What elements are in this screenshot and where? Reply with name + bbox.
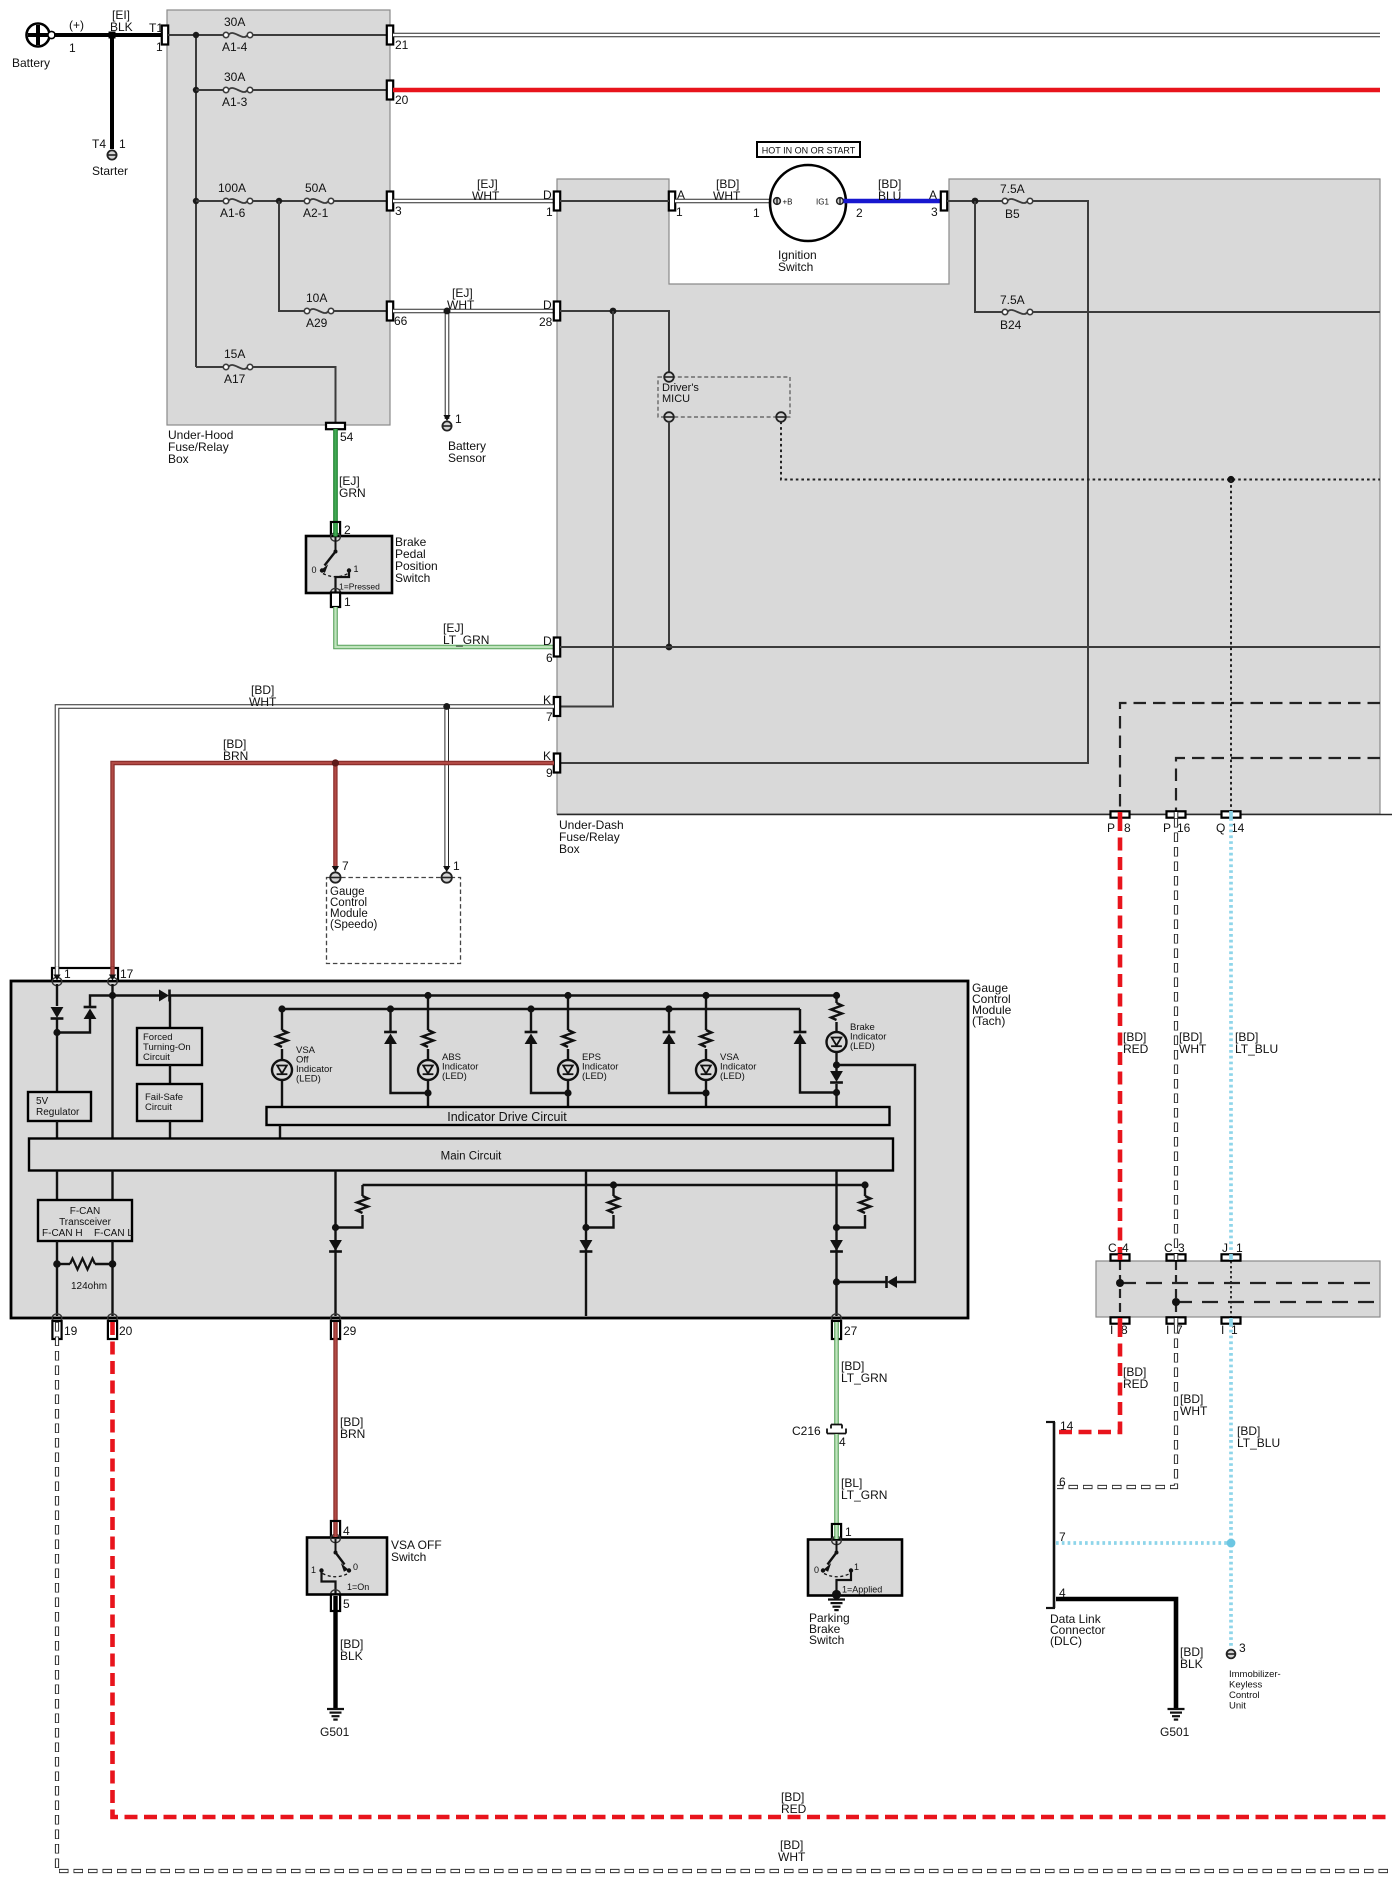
- node pin17 rail1: [109, 992, 116, 999]
- wire node to 5V regulator: [56, 1033, 58, 1093]
- svg-text:G501: G501: [320, 1725, 350, 1739]
- wire MICU to D6 line: [668, 422, 670, 648]
- node ABS join: [424, 1089, 431, 1096]
- diode brake parallel: [799, 1009, 801, 1031]
- wire dotted down to Q14: [1230, 480, 1232, 812]
- diode pin29: [329, 1240, 342, 1251]
- svg-text:D: D: [543, 634, 552, 648]
- connector I7: [1166, 1317, 1186, 1337]
- brake pedal position switch pin 2: [331, 522, 351, 537]
- svg-text:(LED): (LED): [296, 1074, 321, 1085]
- wire WHT K7 net to gauge modules: [57, 707, 554, 976]
- svg-text:B24: B24: [1000, 318, 1022, 332]
- wire F-CAN L to pin 20: [111, 1241, 113, 1316]
- svg-text:30A: 30A: [224, 70, 245, 84]
- node rail2 VSA diode: [665, 1005, 672, 1012]
- diode EPS parallel: [530, 1009, 532, 1031]
- wire WHT into tach pin 1: [55, 967, 60, 975]
- svg-text:J: J: [1222, 1241, 1228, 1255]
- svg-text:8: 8: [1124, 821, 1131, 835]
- resistor pin27 branch: [864, 1185, 866, 1196]
- ground (parking brake): [828, 1598, 845, 1600]
- brake indicator column: [835, 996, 837, 1004]
- node rail1 brake: [833, 992, 840, 999]
- svg-text:F-CAN H: F-CAN H: [42, 1228, 83, 1239]
- svg-text:16: 16: [1177, 821, 1191, 835]
- wire WHT down to speedo pin 1: [444, 707, 449, 870]
- fuse 7.5A B24: [1000, 293, 1033, 332]
- wire WHT from 21 to right edge: [393, 33, 1380, 38]
- tach pin 29 bar: [331, 1321, 357, 1339]
- wire WHT down to battery sensor: [445, 311, 450, 419]
- wire RED dashed I8 to DLC 14: [1057, 1324, 1120, 1432]
- svg-text:LT_BLU: LT_BLU: [1237, 1436, 1280, 1450]
- svg-text:Switch: Switch: [391, 1550, 426, 1564]
- resistor pin29 branch: [361, 1185, 363, 1196]
- svg-text:3: 3: [1178, 1241, 1185, 1255]
- connector C14: [1108, 1241, 1130, 1261]
- svg-text:(Speedo): (Speedo): [330, 919, 377, 931]
- wire dashed to P8: [1120, 703, 1380, 811]
- node rail2 ABS diode: [387, 1005, 394, 1012]
- svg-text:WHT: WHT: [778, 1850, 806, 1864]
- main circuit: [29, 1139, 893, 1171]
- wire A3 junction down to B24: [975, 201, 1002, 312]
- fail-safe circuit: [137, 1084, 202, 1121]
- svg-text:D: D: [543, 188, 552, 202]
- svg-text:A2-1: A2-1: [303, 206, 329, 220]
- svg-text:Box: Box: [168, 452, 189, 466]
- Driver's MICU: [658, 372, 790, 422]
- pin 17 entry: [108, 977, 118, 985]
- forced turning-on circuit: [137, 1028, 202, 1065]
- svg-text:17: 17: [120, 967, 134, 981]
- svg-text:BRN: BRN: [223, 749, 248, 763]
- tach top connector 1/17: [52, 967, 134, 981]
- svg-text:0: 0: [312, 565, 317, 575]
- svg-text:4: 4: [1122, 1241, 1129, 1255]
- wire LT_GRN pin27 to C216: [834, 1322, 839, 1424]
- svg-text:3: 3: [1239, 1641, 1246, 1655]
- wire A3 to fuse B5: [947, 200, 1002, 202]
- svg-text:9: 9: [546, 766, 553, 780]
- wire RED from 20 to right edge: [393, 88, 1380, 93]
- connector K9: [543, 749, 560, 780]
- svg-text:I: I: [1166, 1323, 1169, 1337]
- svg-text:A29: A29: [306, 316, 328, 330]
- node WHT speedo branch (overlay): [443, 703, 450, 710]
- connector block (C/J to I): [1096, 1261, 1380, 1317]
- node C14: [1116, 1279, 1124, 1287]
- svg-text:2: 2: [856, 206, 863, 220]
- Under-Hood Fuse/Relay Box: [167, 10, 390, 466]
- svg-text:1: 1: [753, 206, 760, 220]
- svg-text:7: 7: [1059, 1530, 1066, 1544]
- wire BLK DLC 4 to ground: [1056, 1599, 1176, 1708]
- resistor mid branch: [612, 1185, 614, 1196]
- wire fail-safe to main circuit: [169, 1121, 171, 1138]
- node rail2 EPS diode: [527, 1005, 534, 1012]
- wire pin27 column: [835, 1171, 837, 1317]
- indicator drive circuit: [267, 1107, 890, 1125]
- VSA OFF switch pin 5: [331, 1595, 350, 1612]
- LED VSA indicator: [696, 1060, 716, 1080]
- brake pedal position switch: [306, 533, 438, 597]
- wire BRN K9 net: [113, 763, 555, 975]
- wire pin29 column: [334, 1171, 336, 1317]
- brake pedal position switch pin 1: [331, 593, 351, 610]
- svg-text:(DLC): (DLC): [1050, 1634, 1082, 1648]
- wire WHT A1 to +B: [675, 199, 773, 204]
- svg-text:30A: 30A: [224, 15, 245, 29]
- svg-text:C: C: [1164, 1241, 1173, 1255]
- svg-text:(LED): (LED): [582, 1071, 607, 1082]
- svg-text:A1-6: A1-6: [220, 206, 246, 220]
- VSA OFF switch pin 4: [331, 1521, 350, 1538]
- svg-text:20: 20: [119, 1324, 133, 1338]
- battery sensor: [442, 412, 486, 465]
- node D28 junction: [610, 308, 617, 315]
- connector 66: [387, 302, 408, 329]
- svg-text:1: 1: [546, 205, 553, 219]
- svg-text:21: 21: [395, 38, 409, 52]
- wire D1 to A1: [560, 200, 669, 202]
- node battery sensor branch: [444, 308, 451, 315]
- svg-text:50A: 50A: [305, 181, 326, 195]
- wire BRN pin29 to VSA OFF switch: [333, 1322, 337, 1522]
- starter: [92, 137, 128, 178]
- svg-text:27: 27: [844, 1324, 858, 1338]
- ABS indicator column: [427, 996, 429, 1031]
- resistor VSA off: [277, 1030, 288, 1047]
- node pin27 lower: [833, 1278, 840, 1285]
- connector D6: [543, 634, 560, 665]
- svg-text:MICU: MICU: [662, 393, 690, 405]
- svg-text:RED: RED: [781, 1802, 807, 1816]
- wire IDC to main circuit: [279, 1125, 281, 1138]
- wire pin1 to diode: [56, 984, 58, 1006]
- wire dashed inside block (C13-I7): [1175, 1261, 1177, 1317]
- pin 19 exit: [52, 1314, 62, 1322]
- battery: [12, 18, 84, 70]
- fuse 7.5A B5: [1000, 182, 1033, 221]
- svg-text:1: 1: [354, 564, 359, 574]
- svg-text:4: 4: [343, 1524, 350, 1538]
- svg-text:7.5A: 7.5A: [1000, 293, 1025, 307]
- svg-text:0: 0: [353, 1562, 358, 1572]
- diode VSA parallel: [668, 1009, 670, 1031]
- svg-text:D: D: [543, 298, 552, 312]
- svg-text:Q: Q: [1216, 821, 1225, 835]
- node rail1 VSA: [702, 992, 709, 999]
- wire rail1: [170, 994, 837, 996]
- svg-text:Main Circuit: Main Circuit: [441, 1151, 503, 1163]
- svg-text:WHT: WHT: [447, 298, 475, 312]
- connector Q14: [1216, 811, 1245, 835]
- node pin27: [833, 1224, 840, 1231]
- wire forced circuit feed: [169, 996, 171, 1028]
- diode pin27: [830, 1240, 843, 1251]
- node bus-A1-6: [193, 198, 199, 204]
- svg-text:Battery: Battery: [12, 56, 50, 70]
- svg-text:Starter: Starter: [92, 164, 128, 178]
- svg-text:Regulator: Regulator: [36, 1107, 80, 1118]
- svg-text:1=On: 1=On: [347, 1582, 369, 1592]
- node dotted junction: [1227, 476, 1234, 483]
- wire RED through C14/I8 bars: [1118, 812, 1123, 818]
- wire BLK through VSA OFF pin 5: [333, 1596, 337, 1611]
- node battery junction: [109, 32, 116, 39]
- svg-text:66: 66: [394, 314, 408, 328]
- node mid column: [582, 1224, 589, 1231]
- svg-text:1: 1: [845, 1525, 852, 1539]
- svg-text:C: C: [1108, 1241, 1117, 1255]
- node bus-A1-3: [193, 87, 199, 93]
- LED brake indicator: [827, 1032, 847, 1052]
- HOT IN ON OR START tag: [757, 142, 860, 157]
- wire rail1 start to diode D-c: [113, 994, 160, 996]
- wire LT_GRN C216 to parking brake switch: [834, 1434, 839, 1525]
- wire D-b to rail1: [90, 996, 113, 1008]
- 5V regulator: [28, 1092, 91, 1121]
- data link connector (DLC): [1046, 1419, 1105, 1648]
- connector 21: [387, 26, 409, 53]
- svg-text:RED: RED: [1123, 1377, 1149, 1391]
- wire BRN through VSA OFF pin 4: [333, 1522, 337, 1537]
- svg-text:1=Pressed: 1=Pressed: [339, 582, 380, 592]
- svg-text:A17: A17: [224, 372, 246, 386]
- wire D28 branch net: [560, 311, 669, 373]
- svg-text:(+): (+): [69, 18, 84, 32]
- connector D1: [543, 188, 560, 219]
- diode brake series: [830, 1071, 843, 1082]
- svg-text:Keyless: Keyless: [1229, 1680, 1263, 1691]
- LED VSA Off indicator: [272, 1060, 292, 1080]
- wire pin17 down to main circuit: [111, 984, 113, 1138]
- connector D28: [539, 298, 560, 329]
- resistor 124ohm: [57, 1263, 70, 1265]
- svg-text:1: 1: [455, 412, 462, 426]
- diode ABS parallel: [389, 1009, 391, 1031]
- svg-text:LT_GRN: LT_GRN: [841, 1371, 887, 1385]
- wire D6 line across box: [560, 646, 1380, 648]
- parking brake switch pin 1: [832, 1524, 852, 1540]
- svg-text:WHT: WHT: [249, 695, 277, 709]
- wire dashed to P16: [1176, 758, 1380, 811]
- svg-text:Switch: Switch: [778, 260, 813, 274]
- svg-text:WHT: WHT: [1179, 1042, 1207, 1056]
- svg-text:F-CAN: F-CAN: [70, 1206, 101, 1217]
- svg-text:1: 1: [854, 1562, 859, 1572]
- svg-text:I: I: [1110, 1323, 1113, 1337]
- svg-text:Switch: Switch: [809, 1633, 844, 1647]
- svg-text:BLU: BLU: [878, 189, 901, 203]
- EPS indicator column: [567, 996, 569, 1031]
- svg-text:BLK: BLK: [340, 1649, 363, 1663]
- wire B24 to box right edge: [1033, 311, 1380, 313]
- wire WHT dashed I7 to DLC 6: [1057, 1324, 1176, 1487]
- fuse 100A A1-6: [218, 181, 253, 220]
- diode D-b (to rail): [84, 1006, 97, 1009]
- wire WHT 66 to D28: [393, 309, 554, 314]
- svg-text:HOT IN ON OR START: HOT IN ON OR START: [762, 146, 856, 156]
- wire B5 to K9 (via right drop): [560, 201, 1088, 763]
- wire A17 to 54: [253, 367, 336, 423]
- svg-text:Box: Box: [559, 842, 580, 856]
- connector 20: [387, 81, 409, 108]
- wire F-CAN H to pin 19: [56, 1241, 58, 1316]
- node F-CAN L: [109, 1260, 117, 1268]
- connector J1: [1222, 1241, 1244, 1261]
- svg-text:15A: 15A: [224, 347, 245, 361]
- wire A1-3 to 20: [253, 89, 387, 91]
- svg-text:Sensor: Sensor: [448, 451, 486, 465]
- gauge control module (Tach) box: [11, 981, 1012, 1318]
- svg-text:(Tach): (Tach): [972, 1014, 1005, 1028]
- wire A1-6 to A2-1: [253, 200, 304, 202]
- svg-text:+B: +B: [783, 198, 793, 207]
- svg-text:19: 19: [64, 1324, 78, 1338]
- ignition switch: [770, 165, 846, 274]
- node rail2 VSA off: [278, 1005, 285, 1012]
- svg-text:14: 14: [1231, 821, 1245, 835]
- wire A1-4 to 21: [253, 34, 387, 36]
- wire node to diode D-b bottom: [57, 1019, 90, 1033]
- svg-text:Switch: Switch: [395, 571, 430, 585]
- node diode join: [53, 1029, 60, 1036]
- wire brake side branch: [837, 1065, 916, 1282]
- svg-text:10A: 10A: [306, 291, 327, 305]
- wire LT_GRN through parking brake pin 1: [834, 1525, 839, 1539]
- svg-text:0: 0: [814, 1565, 819, 1575]
- connector A1: [669, 188, 685, 219]
- wire dotted inside block (J1-I1): [1230, 1261, 1232, 1317]
- connector K7: [543, 693, 560, 724]
- node F-CAN H: [53, 1260, 61, 1268]
- svg-text:29: 29: [343, 1324, 357, 1338]
- connector I1: [1221, 1317, 1241, 1337]
- svg-text:T1: T1: [149, 21, 163, 35]
- node EPS join: [564, 1089, 571, 1096]
- svg-text:WHT: WHT: [713, 189, 741, 203]
- wire LT_GRN pin1 to D6: [336, 607, 555, 647]
- svg-text:14: 14: [1060, 1419, 1074, 1433]
- node WHT sensor branch (overlay): [444, 308, 451, 315]
- node BRN speedo branch: [332, 759, 339, 766]
- wire WHT dashed P16 to C13: [1174, 818, 1178, 1254]
- svg-text:1: 1: [453, 859, 460, 873]
- fuse 10A A29: [304, 291, 333, 330]
- wire junction to starter (thick BLK): [110, 35, 114, 149]
- svg-text:(LED): (LED): [442, 1071, 467, 1082]
- svg-text:Circuit: Circuit: [145, 1102, 172, 1113]
- pin 27 exit: [832, 1314, 842, 1322]
- svg-text:LT_BLU: LT_BLU: [1235, 1042, 1278, 1056]
- svg-text:P: P: [1107, 821, 1115, 835]
- svg-text:A1-3: A1-3: [222, 95, 248, 109]
- node BRN speedo branch (overlay): [332, 759, 339, 766]
- svg-text:100A: 100A: [218, 181, 246, 195]
- node bus-A1-4: [193, 32, 199, 38]
- svg-text:C216: C216: [792, 1424, 821, 1438]
- svg-text:(LED): (LED): [850, 1041, 875, 1052]
- wire WHT through C13/I7 bars: [1174, 812, 1179, 818]
- svg-text:Circuit: Circuit: [143, 1052, 170, 1063]
- node pin29: [332, 1224, 339, 1231]
- VSA Off indicator column: [281, 1009, 283, 1030]
- wire GRN 54 to brake pedal switch pin 2: [333, 429, 338, 523]
- resistor ABS: [423, 1030, 434, 1047]
- wire 5V reg to main circuit: [56, 1121, 58, 1138]
- svg-text:20: 20: [395, 93, 409, 107]
- svg-text:6: 6: [1059, 1475, 1066, 1489]
- svg-text:RED: RED: [1123, 1042, 1149, 1056]
- immobilizer terminal: [1227, 1641, 1281, 1712]
- svg-text:4: 4: [839, 1435, 846, 1449]
- svg-text:7.5A: 7.5A: [1000, 182, 1025, 196]
- svg-text:6: 6: [546, 651, 553, 665]
- svg-text:A1-4: A1-4: [222, 40, 248, 54]
- connector P16: [1163, 811, 1191, 835]
- connector A3: [929, 188, 947, 219]
- svg-text:54: 54: [340, 430, 354, 444]
- wire LT_BLU dotted Q14 to J1: [1229, 818, 1233, 1254]
- wire RED dashed P8 to C14: [1118, 818, 1123, 1254]
- svg-text:Indicator Drive Circuit: Indicator Drive Circuit: [447, 1110, 567, 1124]
- svg-text:A: A: [929, 188, 937, 202]
- tach pin 19 bar: [52, 1321, 77, 1339]
- wire A2-1 to 3: [334, 200, 387, 202]
- wire battery to T1 (thick BLK): [54, 33, 163, 37]
- LED ABS indicator: [418, 1060, 438, 1080]
- wire MICU dotted to Q14 net: [781, 422, 1380, 480]
- svg-text:LT_GRN: LT_GRN: [841, 1488, 887, 1502]
- connector P8: [1107, 811, 1131, 835]
- svg-text:T4: T4: [92, 137, 106, 151]
- svg-text:F-CAN L: F-CAN L: [94, 1228, 133, 1239]
- wire mid column: [585, 1171, 587, 1317]
- fuse 30A A1-4: [222, 15, 253, 54]
- fuse 30A A1-3: [222, 70, 253, 109]
- svg-text:3: 3: [931, 205, 938, 219]
- Under-Dash Fuse/Relay Box: [557, 179, 1392, 856]
- svg-text:IG1: IG1: [816, 198, 829, 207]
- diode side branch: [887, 1276, 897, 1288]
- svg-text:1: 1: [156, 40, 163, 54]
- resistor brake: [831, 1003, 842, 1020]
- ground G501 (VSA OFF): [320, 1709, 350, 1739]
- svg-text:124ohm: 124ohm: [71, 1281, 107, 1292]
- wire diode to 5V reg node: [56, 1019, 58, 1033]
- svg-text:LT_GRN: LT_GRN: [443, 633, 489, 647]
- svg-text:GRN: GRN: [339, 486, 366, 500]
- resistor EPS: [563, 1030, 574, 1047]
- node brake join: [833, 1089, 840, 1096]
- wire BLK pin5 to ground: [333, 1611, 337, 1708]
- fuse 50A A2-1: [303, 181, 334, 220]
- wire GRN through brake pedal pin 2: [333, 523, 338, 537]
- wire WHT dashed pin19 to bottom rail: [57, 1322, 1392, 1871]
- svg-text:BLK: BLK: [1180, 1657, 1203, 1671]
- svg-text:WHT: WHT: [472, 189, 500, 203]
- wire RED dashed pin20 to bottom rail: [113, 1322, 1392, 1817]
- svg-text:BRN: BRN: [340, 1427, 365, 1441]
- svg-text:1: 1: [119, 137, 126, 151]
- node rail3 end: [861, 1181, 868, 1188]
- tach pin 27 bar: [832, 1321, 858, 1339]
- svg-text:P: P: [1163, 821, 1171, 835]
- node A3 junction: [972, 198, 979, 205]
